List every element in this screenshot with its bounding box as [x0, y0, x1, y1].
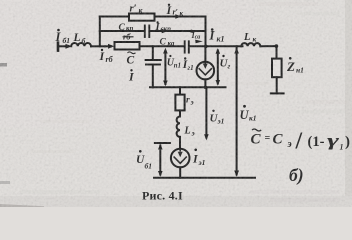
- current source I_e1 inner arrowhead: [178, 152, 183, 157]
- capacitor C_kp: [145, 26, 150, 38]
- arrowhead down U_e1: [204, 134, 209, 140]
- current source I_g1 inner arrowhead: [203, 64, 208, 69]
- wire r_b to C_ka: [140, 45, 185, 47]
- wire I_e1 to ground bus: [179, 167, 181, 178]
- resistor r_b: [115, 42, 140, 50]
- wire branch r'k left: [100, 16, 129, 18]
- arrow I_rb on wire: [108, 44, 114, 49]
- node junction vertical left: [99, 17, 101, 47]
- voltage arrow U_b1 line: [159, 146, 161, 175]
- capacitor C~ stub top: [152, 46, 154, 59]
- inductor L_b: [71, 43, 91, 46]
- arrowhead down U_g: [216, 80, 221, 86]
- inductor L_e: [177, 117, 180, 137]
- arrow I_r'k on wire: [175, 14, 181, 19]
- wire corner down to Z_n1: [276, 46, 278, 59]
- wire branch C_kp left: [100, 30, 145, 32]
- arrowhead down U_k1 bottom: [234, 171, 239, 177]
- wire emitter chain top: [179, 87, 181, 94]
- capacitor C~ stub bottom: [152, 65, 154, 88]
- current source I_g1 inner symbol: [199, 62, 212, 75]
- left input terminal: [57, 43, 60, 51]
- arrowhead up U_g: [216, 48, 221, 54]
- formula C~ = Ce/(1-gamma1): [251, 129, 351, 155]
- arrow I_b1 on wire: [66, 44, 73, 49]
- edge smudge left: [0, 63, 7, 67]
- junction dot on C_kp branch: [190, 30, 193, 33]
- ground bus wire: [154, 177, 255, 179]
- wire branch r'k right: [155, 16, 206, 18]
- wire with I_rb arrow: [105, 45, 111, 47]
- wire L_k to corner: [260, 45, 276, 47]
- arrowhead down U_p1: [163, 81, 168, 87]
- current source I_g1 circle: [197, 62, 215, 80]
- junction dot emitter bus: [204, 86, 207, 89]
- voltage arrow U_e1 line: [205, 88, 207, 138]
- arrow I_skp on wire: [162, 29, 168, 34]
- arrow I_sa small on wire: [195, 40, 203, 44]
- junction dot L_k corner: [275, 44, 279, 48]
- wire source to emitter bus: [204, 79, 206, 87]
- arrowhead down U_b1: [158, 171, 163, 177]
- capacitor C~ plates: [146, 60, 161, 65]
- wire r_e to L_e: [179, 110, 181, 116]
- wire L_e to source I_e1: [179, 137, 181, 149]
- wire Z_n1 bottom: [276, 77, 278, 93]
- arrowhead up U_b1: [158, 144, 163, 150]
- U_b1 top tick: [155, 142, 170, 144]
- arrowhead up U_p1: [163, 48, 168, 54]
- current source I_e1 circle: [171, 149, 190, 168]
- inductor L_k: [241, 43, 260, 46]
- wire C_ka to node K: [189, 45, 242, 47]
- wire branch C_kp right: [150, 30, 206, 32]
- resistor r_e: [175, 95, 184, 111]
- arrowhead up U_k1 top: [234, 48, 239, 54]
- voltage arrow U_p1 line: [164, 51, 166, 84]
- resistor Z_n1: [272, 59, 282, 78]
- wire right vertical of top branches: [205, 17, 207, 47]
- junction dot node K: [204, 45, 208, 49]
- voltage arrow U_g line: [217, 51, 219, 84]
- wire main base line left: [58, 45, 67, 47]
- terminal tick bottom of Z_n1: [271, 92, 284, 94]
- current source I_e1 inner symbol: [174, 149, 187, 164]
- capacitor C_ka: [185, 41, 189, 52]
- wire after L_b: [91, 45, 105, 47]
- emitter bus wire: [150, 86, 226, 88]
- voltage arrow U_k1 line: [236, 46, 238, 174]
- resistor r'k: [129, 14, 155, 21]
- wire drop to source circle: [204, 46, 206, 62]
